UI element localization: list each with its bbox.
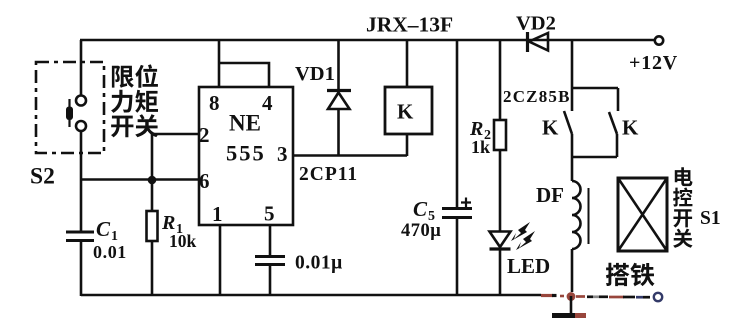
LED diode [490,232,511,250]
svg-text:5: 5 [264,202,275,226]
svg-text:NE: NE [229,111,261,136]
relay contact K right [609,112,617,157]
wire pin6 net to left branch [81,178,199,181]
pin 1 [212,202,223,226]
pin 2 [199,123,210,147]
resistor R1 [147,180,158,296]
inductor DF coil [572,157,581,292]
inductor DF core [588,188,590,244]
label DF [536,183,564,207]
label 限位力矩开关 [111,64,158,137]
pin 6 [199,169,210,193]
terminal chassis circle [654,293,662,301]
diode VD2 [528,32,549,52]
pin 8 [209,91,220,115]
enclosure dash-dot box around S2 [36,62,104,153]
capacitor 0.01u [255,257,285,265]
capacitor C5 electrolytic [442,198,472,218]
label 10k [169,231,197,251]
label NE [229,111,261,136]
svg-text:DF: DF [536,183,564,207]
capacitor C1 [66,232,94,241]
label 2CP11 [299,164,358,185]
IC U1 NE555 box [199,87,293,225]
svg-text:VD1: VD1 [295,63,335,85]
label C5 [413,197,435,224]
wire red lead into junction [541,294,564,298]
relay contact K left [564,111,572,157]
relay coil K (JRX-13F) [385,40,432,156]
svg-text:LED: LED [507,254,550,278]
label 0.01u [295,253,343,274]
label S1 [700,208,721,229]
svg-text:8: 8 [209,91,220,115]
svg-text:1k: 1k [471,137,490,157]
label 470u [401,221,441,241]
wire top supply bus [80,39,655,42]
wire C5 branch [456,40,459,296]
label 555 [226,141,266,166]
wire pin5 stub [269,225,272,295]
svg-text:+12V: +12V [629,52,678,74]
svg-text:3: 3 [277,142,288,166]
svg-text:C: C [413,197,428,221]
pin 5 [264,202,275,226]
wire R2/LED branch [499,40,502,296]
terminal +12V [655,36,663,44]
label LED [507,254,550,278]
svg-text:0.01μ: 0.01μ [295,253,343,274]
label S2 [30,164,55,190]
wire pin8 stub to supply [218,40,221,87]
svg-text:470μ: 470μ [401,221,441,241]
svg-text:K: K [397,100,414,124]
wire bottom ground bus [81,294,541,297]
resistor R2 [494,120,506,150]
svg-text:10k: 10k [169,231,197,251]
svg-text:4: 4 [262,91,273,115]
wire contact join [572,156,617,159]
svg-text:1: 1 [212,202,223,226]
svg-text:2: 2 [199,123,210,147]
svg-text:VD2: VD2 [516,13,556,35]
label 0.01 [93,242,127,262]
switch S2 contacts and actuator [66,96,86,132]
label R1 [161,212,183,237]
svg-text:0.01: 0.01 [93,242,127,262]
switch S1 box (electric control switch) [618,178,667,251]
svg-text:C: C [96,217,111,241]
svg-text:2CP11: 2CP11 [299,164,358,185]
svg-text:K: K [622,116,639,140]
wire left vertical (S2 branch) [80,40,83,296]
pin 4 [262,91,273,115]
wire pin3 output [293,154,407,157]
pin 3 [277,142,288,166]
svg-text:S2: S2 [30,164,55,190]
label 电控开关 [673,167,693,248]
label VD1 [295,63,335,85]
svg-text:JRX–13F: JRX–13F [366,13,453,37]
wire dashed chassis lead [576,295,650,298]
svg-text:555: 555 [226,141,266,166]
label 2CZ85B [503,87,571,106]
label VD2 [516,13,556,35]
wire pin1 to ground bus [219,225,222,295]
svg-text:S1: S1 [700,208,721,229]
diode VD1 [327,40,351,155]
label R2 [469,118,491,143]
LED emission arrows [511,222,535,250]
label JRX-13F [366,13,453,37]
node ground junction dot [567,292,576,301]
svg-text:2CZ85B: 2CZ85B [503,87,571,106]
label 1k [471,137,490,157]
wire pin2 jumper [152,134,199,180]
ground symbol [552,296,586,316]
wire pin4 bridge [219,63,269,87]
label K right [622,116,639,140]
label K left [542,116,559,140]
wire relay contacts branch [572,40,618,111]
label 搭铁 [606,263,655,287]
svg-text:K: K [542,116,559,140]
svg-text:6: 6 [199,169,210,193]
label C1 [96,217,118,244]
label +12V [629,52,678,74]
node timing junction [148,176,157,185]
